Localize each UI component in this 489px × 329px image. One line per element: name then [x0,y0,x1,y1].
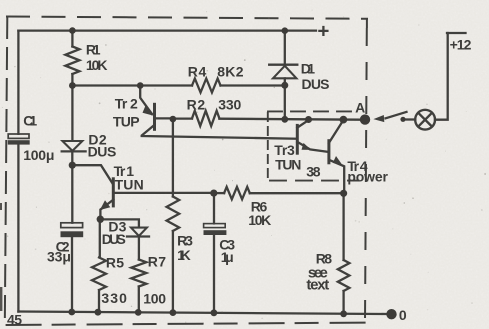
svg-text:DUS: DUS [102,231,126,247]
svg-text:+12: +12 [450,36,472,52]
svg-text:10K: 10K [248,212,271,228]
svg-text:TUP: TUP [113,114,140,130]
svg-text:D1: D1 [301,61,315,77]
svg-text:1K: 1K [177,247,191,263]
svg-text:R2: R2 [187,96,206,112]
svg-text:38: 38 [306,164,321,180]
svg-text:Tr 2: Tr 2 [115,95,138,111]
svg-text:10K: 10K [86,57,108,73]
svg-text:DUS: DUS [88,144,117,160]
svg-text:TUN: TUN [275,157,301,173]
svg-text:100: 100 [143,291,166,307]
svg-text:R5: R5 [106,254,124,270]
svg-text:DUS: DUS [302,76,330,92]
svg-text:R7: R7 [148,253,166,269]
svg-text:330: 330 [218,96,241,112]
svg-text:C1: C1 [23,112,37,128]
svg-text:R4: R4 [188,63,207,79]
svg-text:33μ: 33μ [47,249,71,265]
svg-text:0: 0 [399,307,407,323]
svg-text:R1: R1 [86,41,101,57]
svg-text:TUN: TUN [115,177,144,193]
svg-text:power: power [347,169,388,185]
svg-text:45: 45 [7,311,22,327]
svg-text:100μ: 100μ [23,147,54,163]
svg-text:text: text [306,277,329,294]
svg-text:A: A [355,100,365,116]
svg-text:330: 330 [101,290,127,306]
svg-text:8K2: 8K2 [217,63,244,79]
